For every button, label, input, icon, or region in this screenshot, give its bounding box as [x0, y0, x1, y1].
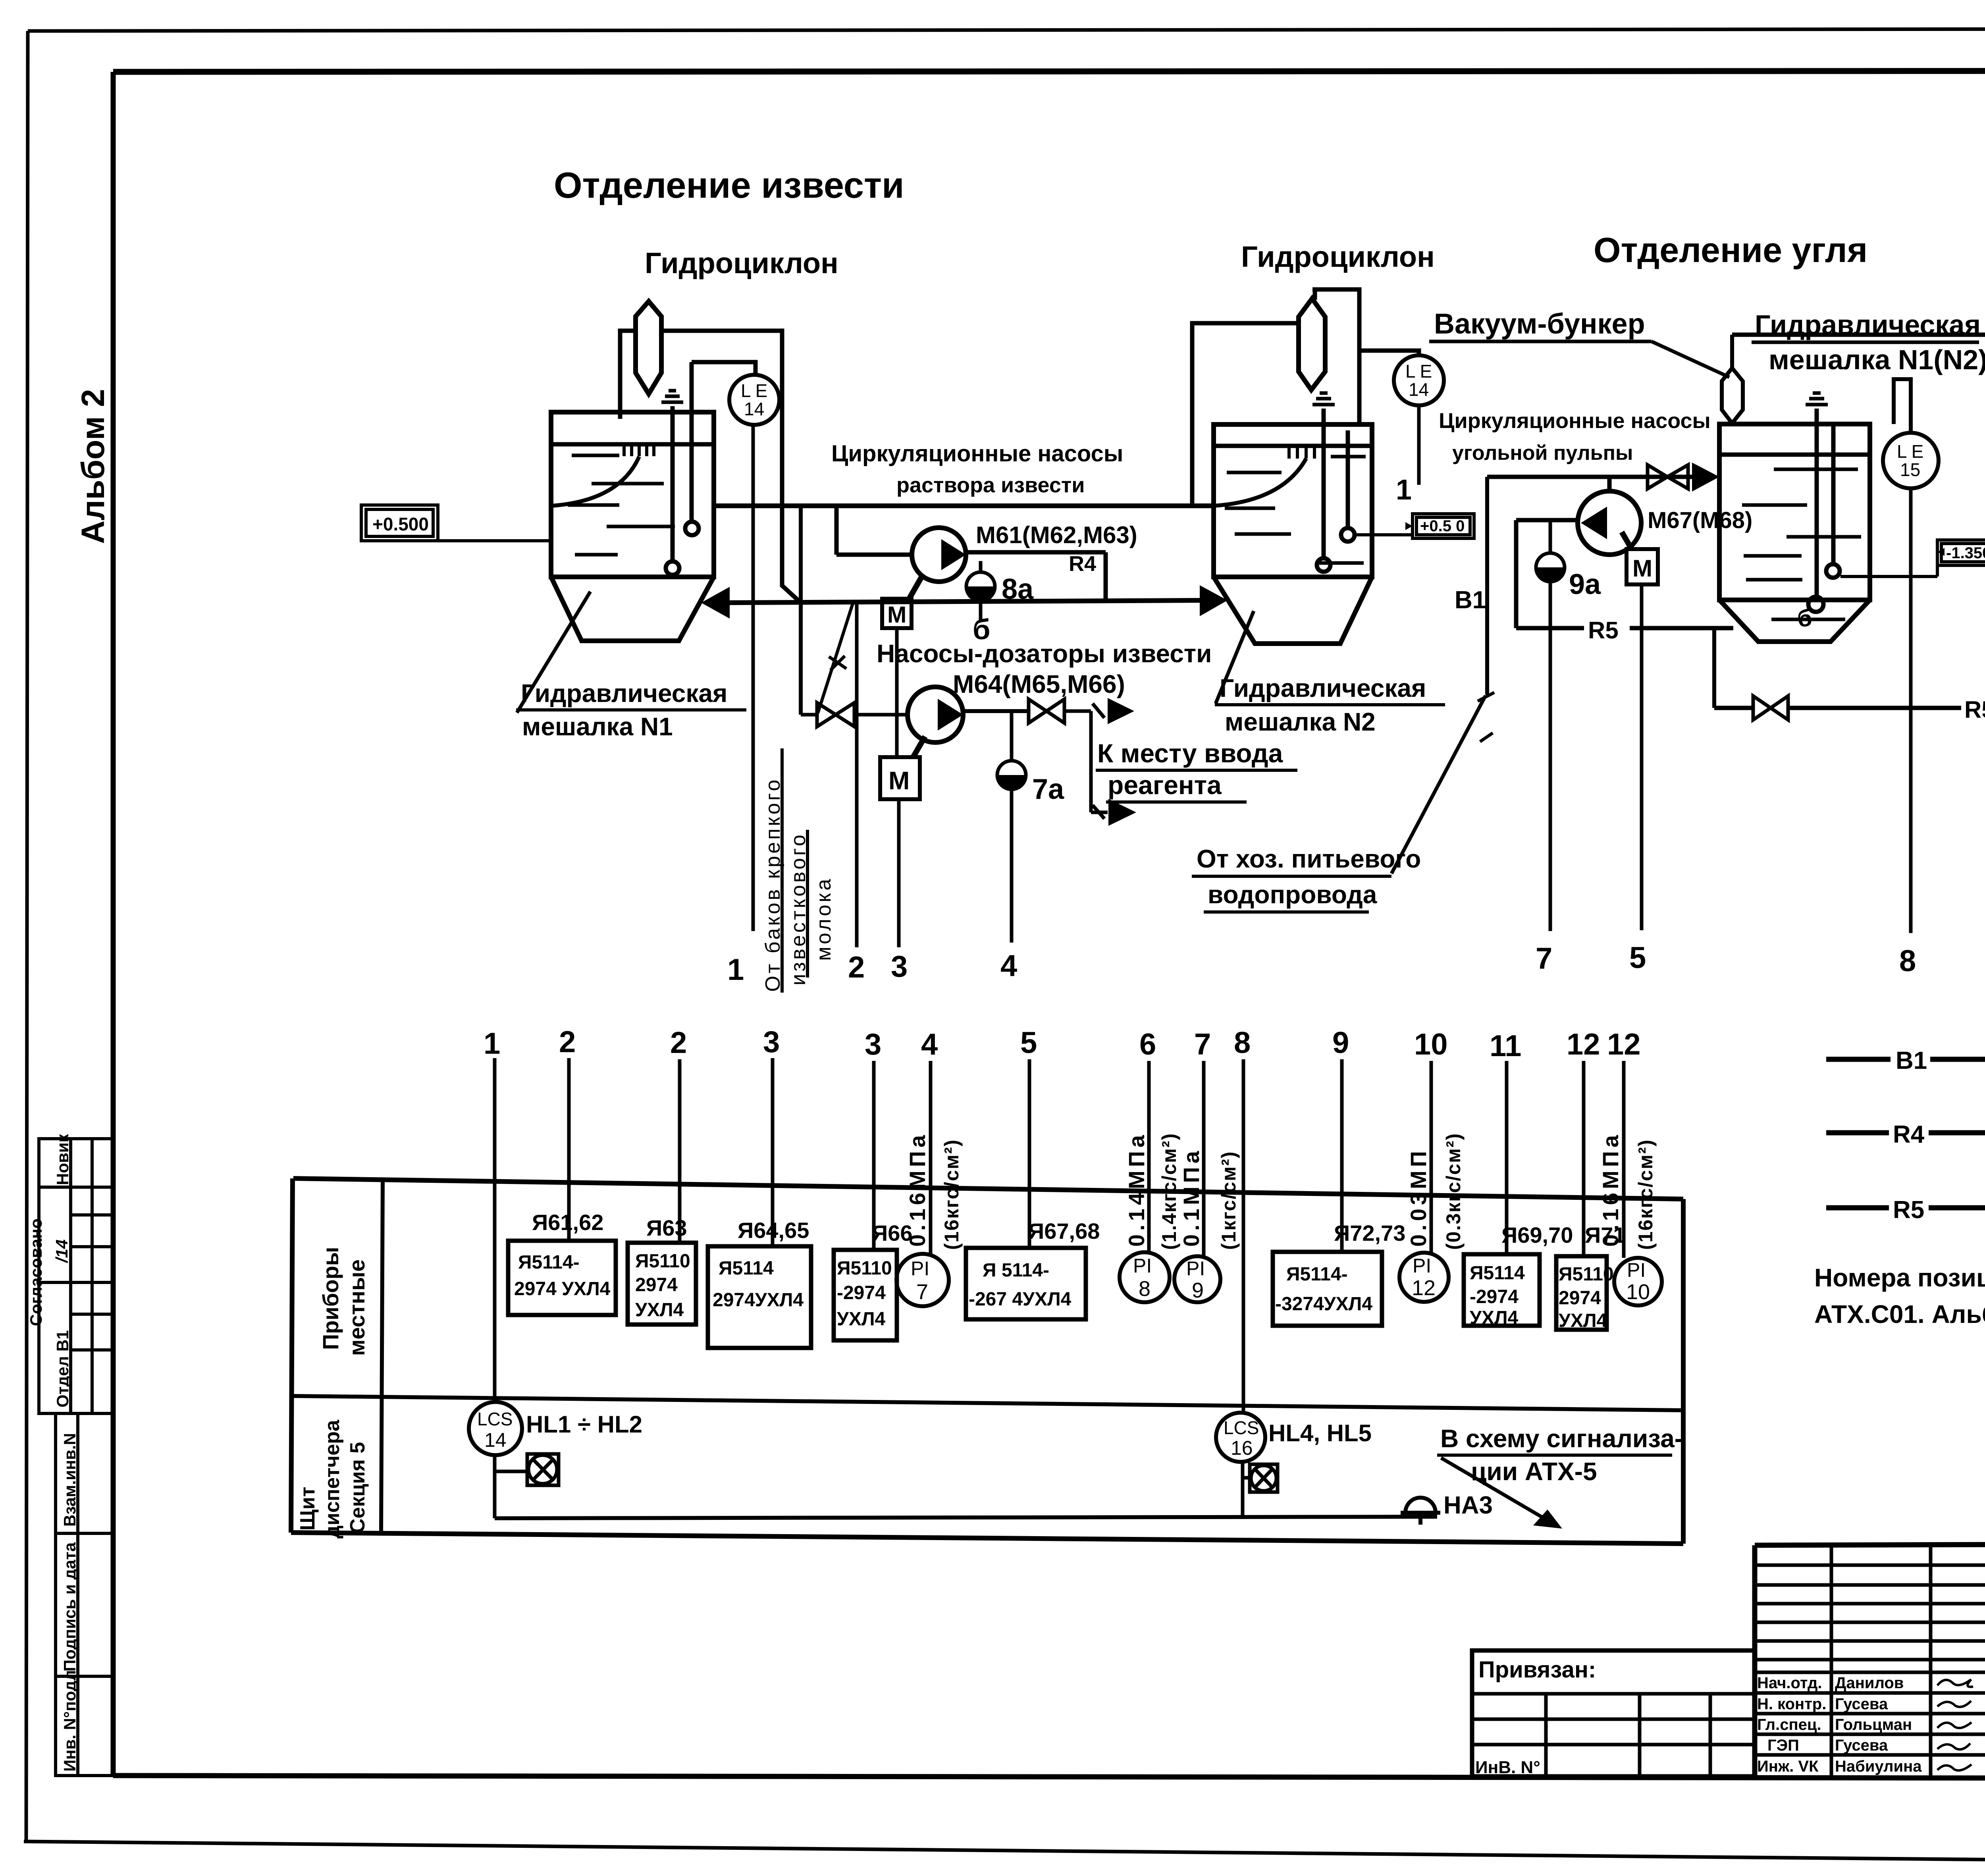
svg-text:(16кгс/см²): (16кгс/см²) [1634, 1139, 1657, 1250]
svg-text:6: 6 [1139, 1028, 1156, 1061]
pump M67 [1578, 477, 1641, 555]
svg-text:Я5114: Я5114 [1470, 1263, 1525, 1284]
svg-text:2974: 2974 [635, 1274, 678, 1296]
level transmitter LE14 [729, 375, 779, 425]
svg-text:(1кгс/см²): (1кгс/см²) [1218, 1151, 1240, 1250]
svg-text:Инж. VК: Инж. VК [1757, 1758, 1819, 1775]
binding table Привязан [1472, 1650, 1755, 1776]
svg-text:Я63: Я63 [646, 1215, 687, 1240]
wire 4 to PI7 [929, 1061, 933, 1254]
reagent injection branch 1 [1091, 698, 1136, 826]
svg-text:-2974: -2974 [837, 1282, 886, 1303]
pump M67 suction piping [1516, 520, 1578, 628]
tank T1 cone bottom [551, 577, 714, 641]
svg-text:8: 8 [1899, 944, 1916, 978]
elevation box -1.350 [1937, 540, 1985, 565]
wire 12b to PI10 [1622, 1061, 1626, 1258]
signal lamp HL4 [1250, 1464, 1278, 1492]
svg-text:/14: /14 [52, 1240, 71, 1263]
wire 3 to box Я64,65 [771, 1058, 775, 1246]
pressure sensor 7a [997, 711, 1026, 789]
svg-text:Гидравлическая: Гидравлическая [521, 679, 727, 708]
svg-text:Я64,65: Я64,65 [738, 1218, 809, 1243]
level switch LCS16 [1216, 1413, 1265, 1462]
svg-text:Гидравлическая: Гидравлическая [1220, 674, 1426, 702]
svg-text:мешалка N1: мешалка N1 [522, 712, 673, 741]
label Вакуум-бункер underlined [1429, 308, 1729, 377]
svg-text:2974 УХЛ4: 2974 УХЛ4 [514, 1278, 611, 1300]
svg-text:Гидроциклон: Гидроциклон [645, 247, 838, 280]
svg-text:Привязан:: Привязан: [1478, 1657, 1596, 1683]
svg-text:местные: местные [344, 1259, 369, 1356]
svg-text:7а: 7а [1032, 773, 1064, 805]
svg-text:Гусева: Гусева [1835, 1737, 1888, 1754]
pump M61 [912, 528, 966, 582]
box Я5114-2974 УХЛ4 (7) [1464, 1254, 1540, 1326]
arrow into tank T1 [701, 587, 730, 619]
svg-text:R5: R5 [1588, 617, 1619, 644]
level transmitter LE15 [1883, 433, 1939, 488]
svg-text:9: 9 [1332, 1026, 1349, 1060]
tank T3 level dashes [1742, 469, 1861, 619]
signature rows [1757, 1674, 1922, 1775]
box Я5114 2974УХЛ4 (3) [708, 1246, 811, 1348]
svg-text:Гидроциклон: Гидроциклон [1241, 240, 1435, 273]
note В схему сигнализации АТХ-5 with arrow [1437, 1424, 1683, 1529]
hydrocyclone HC2 [1299, 299, 1325, 390]
svg-text:5: 5 [1020, 1026, 1037, 1060]
svg-text:PI: PI [1627, 1259, 1646, 1281]
mixer shaft 1 with float [666, 406, 679, 575]
pipe B1 to tank T3 [1487, 475, 1693, 479]
row caption Приборы местные [318, 1247, 369, 1356]
pressure indicator PI12 [1399, 1253, 1449, 1302]
svg-text:2: 2 [848, 951, 865, 984]
instrument boxes row [508, 1241, 1607, 1348]
vacuum bunker capsule [1722, 335, 1743, 423]
svg-text:7: 7 [1536, 942, 1552, 976]
svg-text:мешалка N2: мешалка N2 [1225, 708, 1376, 736]
wire 5 to box Я67,68 [1028, 1059, 1031, 1248]
line number labels row 1 (left) [727, 949, 1017, 987]
wire 7 to PI9 [1202, 1061, 1206, 1256]
svg-text:1: 1 [1396, 474, 1412, 506]
svg-text:2974УХЛ4: 2974УХЛ4 [713, 1290, 804, 1311]
svg-text:3: 3 [891, 950, 908, 983]
svg-text:Циркуляционные насосы: Циркуляционные насосы [831, 441, 1123, 467]
svg-text:Новик: Новик [53, 1134, 72, 1185]
note Номера позиций [1814, 1263, 1985, 1328]
svg-text:PI: PI [1413, 1255, 1431, 1277]
svg-text:М67(М68): М67(М68) [1648, 507, 1752, 533]
svg-text:Согласовано: Согласовано [27, 1219, 45, 1326]
svg-text:ГЭП: ГЭП [1767, 1737, 1799, 1754]
svg-text:УХЛ4: УХЛ4 [1470, 1307, 1519, 1328]
signal lamp HL1 [527, 1454, 559, 1485]
legend B1 [1826, 1047, 1985, 1076]
motor box M (M64) [880, 737, 925, 799]
svg-text:-3274УХЛ4: -3274УХЛ4 [1275, 1294, 1372, 1315]
svg-text:В схему сигнализа-: В схему сигнализа- [1440, 1424, 1683, 1453]
svg-text:Я72,73: Я72,73 [1334, 1220, 1405, 1246]
wire 10 to PI12 [1430, 1061, 1433, 1253]
elevation box +0.500 [361, 505, 552, 541]
svg-text:R5: R5 [1893, 1196, 1924, 1224]
tank T3 body [1719, 424, 1870, 600]
coal slurry pipe R5 lower [1714, 706, 1985, 710]
box texts [514, 1251, 1614, 1331]
svg-text:LCS: LCS [1224, 1417, 1259, 1438]
svg-text:Отделение угля: Отделение угля [1594, 230, 1867, 270]
box Я5114-2974УХЛ4 (1) [508, 1241, 616, 1315]
svg-text:0.1МПа: 0.1МПа [1179, 1147, 1204, 1247]
svg-text:Я5114: Я5114 [719, 1258, 774, 1279]
hydrocyclone HC1 [636, 301, 661, 394]
svg-text:L E: L E [741, 380, 767, 401]
signal stub line 1 (LE14-2) [1417, 405, 1421, 485]
svg-text:М61(М62,М63): М61(М62,М63) [976, 522, 1137, 548]
label leader to tank T2 [1216, 611, 1254, 704]
legend R5 [1826, 1196, 1985, 1224]
label Циркуляционные насосы угольной пульпы [1439, 409, 1711, 465]
svg-text:+0.500: +0.500 [372, 514, 429, 534]
tank T2 level dashes [1225, 457, 1366, 563]
svg-text:Я67,68: Я67,68 [1028, 1219, 1100, 1244]
wire 3b to box Я66 [872, 1061, 876, 1250]
svg-text:(16кгс/см²): (16кгс/см²) [940, 1139, 963, 1250]
signal line 2 [855, 602, 859, 947]
valve V2 (dosing discharge) [1029, 699, 1091, 723]
svg-text:4: 4 [921, 1028, 938, 1061]
title block frame [1755, 1543, 1985, 1776]
R5 drop to dosing line [1712, 628, 1716, 708]
svg-text:Номера позиций приборов соотве: Номера позиций приборов соответствуют [1814, 1263, 1985, 1292]
box Я5110 2974 УХЛ4 (2) [628, 1243, 696, 1325]
svg-text:Гусева: Гусева [1835, 1695, 1888, 1713]
box Я5114-3274УХЛ4 (6) [1273, 1252, 1382, 1326]
svg-text:-1.350: -1.350 [1946, 544, 1985, 562]
row caption Щит диспетчера Секция 5 [296, 1419, 369, 1539]
svg-text:Щит: Щит [296, 1487, 319, 1531]
motor box M (M61) [882, 576, 922, 757]
dosing discharge line [963, 709, 1029, 713]
stamp column upper box [39, 1139, 113, 1413]
svg-text:Данилов: Данилов [1835, 1674, 1904, 1692]
svg-text:2: 2 [559, 1025, 576, 1059]
tank T1 weir comb [624, 444, 654, 456]
svg-text:3: 3 [865, 1028, 881, 1061]
svg-text:М: М [1632, 555, 1652, 582]
svg-text:реагента: реагента [1108, 770, 1222, 800]
svg-text:мешалка N1(N2): мешалка N1(N2) [1769, 344, 1985, 375]
elevation box +0.5 0 [1413, 514, 1474, 538]
svg-text:Я66: Я66 [872, 1220, 913, 1246]
svg-text:7: 7 [1194, 1028, 1211, 1061]
pump M61 discharge R4 [966, 552, 1106, 602]
svg-text:НА3: НА3 [1443, 1492, 1493, 1519]
main pipe T1 to T2 [714, 503, 1214, 508]
svg-text:10: 10 [1626, 1280, 1650, 1304]
svg-text:4: 4 [1000, 949, 1017, 983]
svg-text:16: 16 [1231, 1437, 1253, 1459]
mixer shaft 2 T3 [1826, 424, 1840, 578]
vacuum line to pump M72 [1732, 333, 1985, 337]
valve V1 (before dosing pump) [801, 703, 908, 727]
svg-text:Я5114-: Я5114- [1286, 1264, 1348, 1285]
signal line 5 [1640, 584, 1644, 930]
svg-text:5: 5 [1629, 941, 1646, 975]
wire 12 to box Я71 [1582, 1061, 1586, 1256]
svg-text:Н. контр.: Н. контр. [1757, 1695, 1826, 1713]
wire 1 to LCS14 [493, 1058, 497, 1402]
svg-text:11: 11 [1490, 1029, 1521, 1063]
svg-text:(0.3кгс/см²): (0.3кгс/см²) [1442, 1133, 1465, 1250]
stamp texts [27, 1134, 79, 1772]
box Я5110-2974 УХЛ4 (4) [834, 1250, 897, 1340]
line number labels row 1 (right) [1536, 941, 1985, 981]
tank T1 (hydraulic mixer N1) body [551, 412, 714, 577]
svg-text:Секция 5: Секция 5 [346, 1442, 369, 1533]
svg-text:ции АТХ-5: ции АТХ-5 [1471, 1457, 1597, 1486]
wire 6 to PI8 [1147, 1061, 1151, 1252]
bypass diagonal with valve [818, 603, 853, 713]
label leader to tank T1 [517, 592, 590, 713]
svg-text:HL4, HL5: HL4, HL5 [1268, 1420, 1372, 1446]
svg-text:раствора извести: раствора извести [896, 473, 1085, 497]
svg-text:LCS: LCS [477, 1409, 513, 1429]
mixer shaft 1 T3 [1808, 409, 1823, 612]
svg-text:8а: 8а [1002, 573, 1034, 605]
label Циркуляционные насосы раствора извести [831, 441, 1123, 497]
signal line 8 [1909, 488, 1913, 933]
svg-text:+0.5 0: +0.5 0 [1420, 517, 1465, 535]
HC1 overflow loop piping [620, 331, 800, 602]
wire 9 to box Я72,73 [1340, 1059, 1344, 1252]
svg-text:Гольцман: Гольцман [1835, 1716, 1912, 1733]
svg-text:14: 14 [1409, 379, 1429, 400]
pressure indicator PI10 [1614, 1258, 1662, 1305]
svg-text:12: 12 [1607, 1028, 1641, 1061]
svg-text:R4: R4 [1893, 1121, 1925, 1148]
pressure indicator PI9 [1174, 1256, 1220, 1302]
wire 2 to box Я61,62 [567, 1058, 571, 1241]
svg-text:Вакуум-бункер: Вакуум-бункер [1434, 308, 1645, 340]
pressure indicator PI8 [1120, 1252, 1170, 1302]
svg-text:К месту ввода: К месту ввода [1097, 738, 1284, 768]
svg-text:Взам.инв.N: Взам.инв.N [60, 1433, 79, 1527]
potable water note with leader [1192, 696, 1486, 912]
box Я5110 2974 УХЛ4 (8) [1556, 1256, 1607, 1330]
svg-text:9: 9 [1192, 1278, 1204, 1302]
signature squiggles [1937, 1679, 1973, 1770]
svg-text:-267 4УХЛ4: -267 4УХЛ4 [969, 1289, 1072, 1310]
wire LCS14 to lamp [495, 1455, 527, 1518]
svg-text:PI: PI [1133, 1255, 1152, 1277]
svg-text:УХЛ4: УХЛ4 [837, 1309, 886, 1330]
pump M61 suction piping [836, 506, 913, 555]
svg-text:L E: L E [1405, 361, 1432, 382]
valve V3 (B1 line) [1648, 465, 1688, 489]
svg-text:Я69,70: Я69,70 [1501, 1222, 1573, 1247]
svg-text:Нач.отд.: Нач.отд. [1757, 1674, 1822, 1692]
valve V4 (R5 lower) [1753, 696, 1788, 720]
svg-text:1: 1 [484, 1027, 500, 1060]
svg-text:М: М [888, 766, 910, 795]
svg-text:Набиулина: Набиулина [1835, 1758, 1922, 1775]
svg-text:Я61,62: Я61,62 [532, 1210, 603, 1235]
lime milk feed line (line 2 drop) [799, 506, 803, 715]
LE14 sensing loop [692, 362, 755, 375]
svg-text:Инв. N°подл: Инв. N°подл [60, 1670, 79, 1772]
svg-text:15: 15 [1900, 459, 1920, 480]
arrow into tank T2 [1200, 585, 1228, 616]
svg-text:9а: 9а [1569, 569, 1601, 600]
vertical note От баков крепкого известкового молока [761, 748, 835, 993]
signal line 1 from LE14 [752, 425, 755, 931]
svg-text:Насосы-дозаторы извести: Насосы-дозаторы извести [877, 639, 1212, 668]
legend R4 [1826, 1121, 1985, 1184]
mixer ground symbol T2 [1312, 393, 1335, 405]
tank T2 inlet curve [1214, 459, 1306, 506]
svg-text:Альбом 2: Альбом 2 [75, 389, 111, 544]
tank T2 weir comb [1289, 446, 1323, 459]
svg-text:водопровода: водопровода [1208, 880, 1377, 909]
svg-text:АТХ.С01. Альбом 5: АТХ.С01. Альбом 5 [1814, 1300, 1985, 1328]
mixer shaft 1 T2 [1317, 409, 1330, 572]
signature rows [1755, 1672, 1985, 1755]
level transmitter LE14 (2) [1394, 355, 1444, 405]
coal slurry pipe R5 upper [1516, 626, 1733, 630]
HC2 piping loop [1192, 289, 1359, 506]
svg-text:УХЛ4: УХЛ4 [635, 1300, 684, 1321]
svg-text:От хоз. питьевого: От хоз. питьевого [1197, 844, 1421, 873]
svg-text:молока: молока [812, 877, 835, 961]
tank T1 inlet curve [551, 457, 639, 506]
svg-text:1: 1 [727, 953, 744, 987]
svg-text:Я5114-: Я5114- [518, 1252, 580, 1273]
LE14-2 sensing line [1359, 351, 1419, 355]
mixer ground symbol T3 [1806, 393, 1828, 405]
svg-text:Циркуляционные насосы: Циркуляционные насосы [1439, 409, 1711, 433]
svg-text:PI: PI [1186, 1257, 1205, 1280]
svg-text:-2974: -2974 [1470, 1286, 1519, 1307]
wire LCS16 to lamp [1241, 1462, 1245, 1517]
svg-text:10: 10 [1414, 1028, 1448, 1061]
mixer ground symbol T1 [661, 391, 683, 402]
svg-text:Приборы: Приборы [318, 1247, 343, 1350]
tank T2 cone bottom [1214, 577, 1372, 644]
pressure indicator PI7 [896, 1254, 949, 1306]
svg-text:12: 12 [1412, 1276, 1436, 1300]
svg-text:2: 2 [670, 1026, 687, 1060]
instrument group labels [532, 1210, 1626, 1247]
alarm bell НА3 [1401, 1498, 1440, 1525]
svg-text:Отдел В1: Отдел В1 [53, 1330, 72, 1407]
svg-text:PI: PI [911, 1257, 929, 1280]
svg-text:2974: 2974 [1559, 1288, 1601, 1309]
svg-text:L E: L E [1897, 441, 1923, 462]
stamp column lower box [56, 1413, 113, 1776]
signal line 7 [1549, 582, 1552, 931]
label Гидравлическая мешалка N1 [516, 679, 746, 741]
svg-text:8: 8 [1234, 1026, 1251, 1060]
wire 8 to LCS16 [1242, 1059, 1245, 1413]
svg-text:Отделение извести: Отделение извести [554, 165, 904, 206]
tank T3 cone bottom [1719, 600, 1870, 642]
mixer shaft 2 with float [685, 362, 699, 535]
signal line 3 from motor boxes [897, 799, 901, 947]
svg-text:М64(М65,М66): М64(М65,М66) [953, 670, 1125, 698]
wire 2b to box Я63 [678, 1059, 682, 1243]
svg-text:В1: В1 [1896, 1047, 1927, 1074]
svg-text:Гл.спец.: Гл.спец. [1757, 1716, 1821, 1733]
svg-text:Я5110: Я5110 [635, 1251, 690, 1272]
box Я5114-2674УХЛ4 (5) [966, 1248, 1086, 1319]
level switch LCS14 [469, 1402, 522, 1455]
svg-text:3: 3 [763, 1025, 780, 1059]
arrow into tank T3 [1692, 463, 1719, 492]
mixer shaft 2 T2 [1341, 430, 1355, 542]
pressure sensor 8a [966, 561, 995, 620]
svg-text:ИнВ. N°: ИнВ. N° [1475, 1758, 1540, 1777]
label Насосы-дозаторы извести [877, 639, 1212, 698]
water pipe B1 [1478, 477, 1494, 742]
line number labels row 2 [484, 1025, 1641, 1063]
motor box M (M67) [1622, 532, 1658, 584]
svg-text:Я71: Я71 [1585, 1222, 1626, 1247]
label К месту ввода реагента (1) [1096, 738, 1297, 802]
return pipe into T1 and T2 [729, 600, 1205, 603]
dosing pump M64 [908, 687, 963, 742]
svg-text:R5: R5 [1964, 696, 1985, 723]
table frame [291, 1178, 1683, 1544]
svg-text:угольной пульпы: угольной пульпы [1452, 442, 1633, 465]
LE15 sensing loop [1894, 379, 1911, 433]
label Гидравлическая мешалка N1(N2) [1752, 309, 1985, 375]
svg-text:Я5110: Я5110 [837, 1258, 892, 1279]
svg-text:14: 14 [744, 399, 764, 419]
svg-text:R4: R4 [1069, 552, 1096, 576]
tank T1 level dashes [568, 455, 675, 555]
tank T2 (hydraulic mixer N2) body [1214, 424, 1372, 577]
signal line 4 from 7a [1010, 789, 1014, 943]
svg-text:диспетчера: диспетчера [321, 1419, 344, 1539]
label Гидравлическая мешалка N2 [1215, 674, 1445, 736]
wire 11 to box Я69,70 [1505, 1061, 1509, 1254]
svg-text:В1: В1 [1455, 586, 1486, 614]
svg-text:Я 5114-: Я 5114- [983, 1260, 1049, 1281]
svg-text:УХЛ4: УХЛ4 [1559, 1310, 1607, 1331]
svg-text:12: 12 [1567, 1028, 1600, 1061]
revision grid [1755, 1544, 1985, 1776]
svg-text:14: 14 [484, 1429, 507, 1451]
svg-text:Подпись и дата: Подпись и дата [60, 1542, 79, 1672]
title block texts [1475, 1566, 1985, 1778]
pressure sensor 9a [1536, 520, 1565, 582]
svg-text:7: 7 [916, 1280, 928, 1304]
svg-text:HL1 ÷ HL2: HL1 ÷ HL2 [526, 1411, 642, 1438]
svg-text:Я5110: Я5110 [1559, 1264, 1614, 1285]
svg-text:М: М [887, 602, 906, 628]
svg-text:8: 8 [1139, 1277, 1151, 1301]
pressure rating notes (rotated) [905, 1132, 1657, 1250]
